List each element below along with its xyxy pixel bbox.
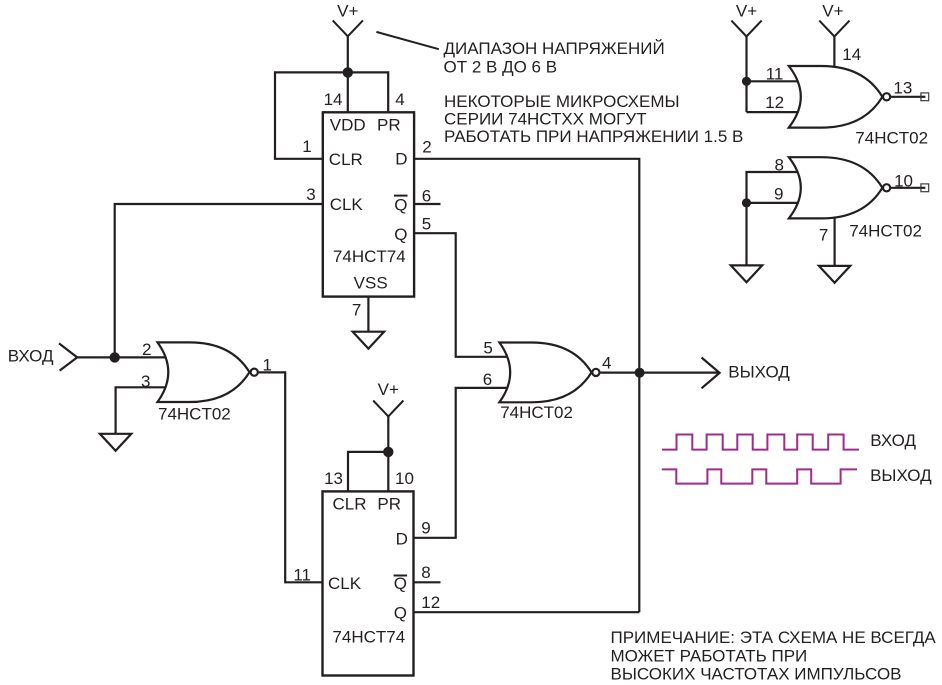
svg-text:2: 2 xyxy=(422,138,431,157)
svg-text:74HCT02: 74HCT02 xyxy=(849,222,922,241)
svg-text:VSS: VSS xyxy=(354,273,388,292)
svg-text:7: 7 xyxy=(819,226,828,245)
svg-text:CLK: CLK xyxy=(330,195,364,214)
svg-text:Q: Q xyxy=(394,225,407,244)
svg-text:Q: Q xyxy=(394,574,407,593)
svg-text:V+: V+ xyxy=(337,2,358,21)
svg-text:74HCT02: 74HCT02 xyxy=(500,403,573,422)
svg-text:D: D xyxy=(396,529,408,548)
svg-text:7: 7 xyxy=(352,301,361,320)
svg-text:14: 14 xyxy=(842,45,861,64)
svg-text:5: 5 xyxy=(483,339,492,358)
svg-text:V+: V+ xyxy=(378,380,399,399)
svg-text:11: 11 xyxy=(766,64,784,83)
svg-text:14: 14 xyxy=(324,90,343,109)
svg-text:VDD: VDD xyxy=(330,116,366,135)
svg-text:13: 13 xyxy=(324,469,343,488)
svg-text:74HCT74: 74HCT74 xyxy=(333,247,406,266)
svg-text:5: 5 xyxy=(422,214,431,233)
svg-text:V+: V+ xyxy=(736,2,757,21)
svg-text:13: 13 xyxy=(893,78,912,97)
svg-text:6: 6 xyxy=(422,186,431,205)
svg-text:8: 8 xyxy=(421,563,430,582)
svg-text:CLR: CLR xyxy=(333,495,367,514)
svg-text:CLR: CLR xyxy=(329,150,363,169)
svg-text:3: 3 xyxy=(141,372,150,391)
svg-text:Q: Q xyxy=(394,195,407,214)
svg-text:МОЖЕТ РАБОТАТЬ ПРИ: МОЖЕТ РАБОТАТЬ ПРИ xyxy=(611,646,808,665)
svg-text:1: 1 xyxy=(263,356,272,375)
svg-text:74HCT02: 74HCT02 xyxy=(855,128,928,147)
svg-text:V+: V+ xyxy=(822,2,843,21)
svg-text:ПРИМЕЧАНИЕ: ЭТА СХЕМА НЕ ВСЕГД: ПРИМЕЧАНИЕ: ЭТА СХЕМА НЕ ВСЕГДА xyxy=(611,628,937,647)
svg-text:4: 4 xyxy=(395,90,404,109)
svg-text:ВХОД: ВХОД xyxy=(870,431,916,450)
svg-text:12: 12 xyxy=(765,93,784,112)
svg-text:D: D xyxy=(395,149,407,168)
svg-text:2: 2 xyxy=(142,340,151,359)
svg-text:74HCT74: 74HCT74 xyxy=(332,628,405,647)
svg-text:ВЫСОКИХ ЧАСТОТАХ ИМПУЛЬСОВ: ВЫСОКИХ ЧАСТОТАХ ИМПУЛЬСОВ xyxy=(611,665,902,684)
svg-text:8: 8 xyxy=(775,156,784,175)
svg-text:CLK: CLK xyxy=(328,574,362,593)
svg-text:1: 1 xyxy=(302,137,311,156)
svg-text:РАБОТАТЬ ПРИ НАПРЯЖЕНИИ 1.5 В: РАБОТАТЬ ПРИ НАПРЯЖЕНИИ 1.5 В xyxy=(444,127,743,146)
svg-text:3: 3 xyxy=(306,185,315,204)
svg-text:ВЫХОД: ВЫХОД xyxy=(728,362,790,381)
svg-text:ВЫХОД: ВЫХОД xyxy=(870,466,932,485)
svg-text:74HCT02: 74HCT02 xyxy=(158,404,231,423)
svg-text:НЕКОТОРЫЕ МИКРОСХЕМЫ: НЕКОТОРЫЕ МИКРОСХЕМЫ xyxy=(444,92,680,111)
svg-text:PR: PR xyxy=(377,116,401,135)
svg-text:11: 11 xyxy=(293,566,311,585)
svg-text:СЕРИИ 74НСТХХ МОГУТ: СЕРИИ 74НСТХХ МОГУТ xyxy=(444,110,647,129)
svg-text:12: 12 xyxy=(421,593,440,612)
svg-text:10: 10 xyxy=(894,172,913,191)
svg-text:ДИАПАЗОН НАПРЯЖЕНИЙ: ДИАПАЗОН НАПРЯЖЕНИЙ xyxy=(444,39,665,58)
svg-text:PR: PR xyxy=(377,495,401,514)
svg-text:Q: Q xyxy=(394,604,407,623)
svg-text:ОТ 2 В ДО 6 В: ОТ 2 В ДО 6 В xyxy=(444,58,558,77)
svg-text:4: 4 xyxy=(602,353,611,372)
svg-text:6: 6 xyxy=(483,370,492,389)
svg-text:9: 9 xyxy=(421,519,430,538)
svg-text:9: 9 xyxy=(774,185,783,204)
svg-text:10: 10 xyxy=(395,469,414,488)
svg-text:ВХОД: ВХОД xyxy=(8,347,54,366)
